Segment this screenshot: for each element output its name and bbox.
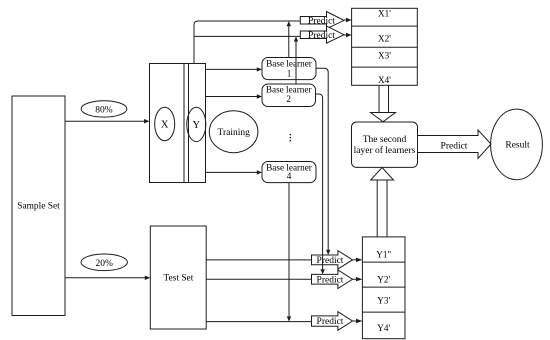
svg-text:Sample Set: Sample Set bbox=[17, 202, 60, 212]
svg-text:Predict: Predict bbox=[441, 141, 468, 151]
svg-text:Predict: Predict bbox=[317, 256, 344, 266]
svg-text:X: X bbox=[161, 120, 169, 131]
svg-text:The second: The second bbox=[363, 135, 407, 145]
svg-text:4: 4 bbox=[287, 171, 292, 181]
svg-text:layer of learners: layer of learners bbox=[354, 145, 416, 156]
svg-text:Predict: Predict bbox=[308, 17, 335, 27]
svg-text:Y2': Y2' bbox=[377, 274, 390, 284]
svg-text:Result: Result bbox=[505, 141, 530, 151]
svg-text:Training: Training bbox=[218, 128, 251, 138]
svg-text:X4': X4' bbox=[378, 75, 391, 85]
svg-text:1: 1 bbox=[287, 68, 292, 78]
svg-text:Y1": Y1" bbox=[376, 249, 391, 259]
svg-text:X3': X3' bbox=[378, 51, 391, 61]
svg-text:Predict: Predict bbox=[308, 31, 335, 41]
svg-text:80%: 80% bbox=[95, 106, 113, 116]
svg-text:2: 2 bbox=[286, 94, 291, 104]
svg-text:Test Set: Test Set bbox=[163, 274, 193, 284]
svg-text:20%: 20% bbox=[95, 259, 113, 269]
svg-text:X2': X2' bbox=[378, 34, 391, 44]
svg-text:Y4': Y4' bbox=[377, 323, 390, 333]
svg-text:Predict: Predict bbox=[317, 317, 344, 327]
svg-text:Base learner: Base learner bbox=[266, 59, 312, 69]
svg-text:Y3': Y3' bbox=[377, 296, 390, 306]
svg-text:Predict: Predict bbox=[317, 275, 344, 285]
svg-text:X1': X1' bbox=[378, 8, 391, 18]
svg-text:Y: Y bbox=[193, 120, 201, 131]
svg-text:Base learner: Base learner bbox=[266, 84, 312, 94]
